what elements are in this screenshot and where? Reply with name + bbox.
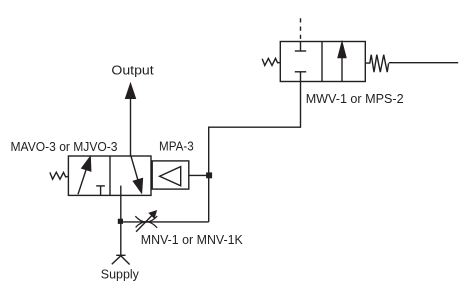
needle valve MNV-1 restrictor arcs (135, 216, 157, 228)
wire from V2 bottom port down, left, down to node B (209, 82, 301, 222)
supply wire (120, 186, 122, 257)
svg-text:Supply: Supply (101, 267, 140, 282)
output arrow (126, 84, 136, 156)
V2 pilot dashed line (300, 18, 302, 41)
wire from V2 right spring to right edge (389, 62, 458, 64)
V2 right cell flow arrow (338, 43, 346, 82)
V1 left spring actuator (50, 172, 69, 179)
V2 left cell bottom blocked port T (295, 72, 306, 82)
needle valve wire (121, 221, 209, 223)
V1 left cell flow arrow (78, 157, 91, 194)
pilot operator U1 (MPA-3) box (152, 161, 189, 189)
svg-text:Output: Output (111, 63, 154, 78)
svg-text:MNV-1 or MNV-1K: MNV-1 or MNV-1K (141, 232, 243, 247)
V2 left spring actuator (262, 58, 280, 65)
supply source symbol (112, 255, 130, 264)
V2 right return spring (365, 55, 388, 72)
V2 left cell top blocked port T (295, 42, 306, 52)
needle valve MNV-1 adjustment arrow (136, 211, 156, 232)
svg-text:MWV-1 or MPS-2: MWV-1 or MPS-2 (306, 91, 404, 106)
svg-text:MAVO-3 or MJVO-3: MAVO-3 or MJVO-3 (11, 139, 118, 154)
node B junction dot (118, 219, 123, 224)
MPA-3 triangle (160, 167, 181, 186)
wire MPA-3 to node A (189, 174, 209, 176)
valve V2 body (MWV-1 or MPS-2) (280, 42, 365, 82)
node A junction dot (206, 172, 212, 178)
svg-text:MPA-3: MPA-3 (159, 139, 194, 154)
V1 right cell flow arrow (131, 155, 143, 192)
valve V1 body (MAVO-3 or MJVO-3) (68, 156, 151, 195)
V1 left cell blocked port T (96, 186, 105, 196)
